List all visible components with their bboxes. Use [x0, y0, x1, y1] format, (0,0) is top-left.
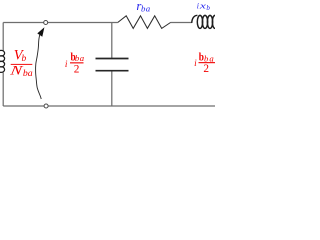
svg-text:i: i — [197, 2, 199, 11]
svg-text:ba: ba — [23, 68, 33, 79]
svg-text:ba: ba — [141, 4, 151, 14]
svg-text:ba: ba — [75, 53, 85, 63]
svg-text:i: i — [194, 58, 197, 68]
svg-text:b: b — [206, 4, 210, 12]
svg-text:x: x — [198, 0, 206, 10]
svg-text:i: i — [65, 59, 68, 69]
svg-text:2: 2 — [74, 63, 80, 75]
svg-text:2: 2 — [203, 63, 209, 75]
